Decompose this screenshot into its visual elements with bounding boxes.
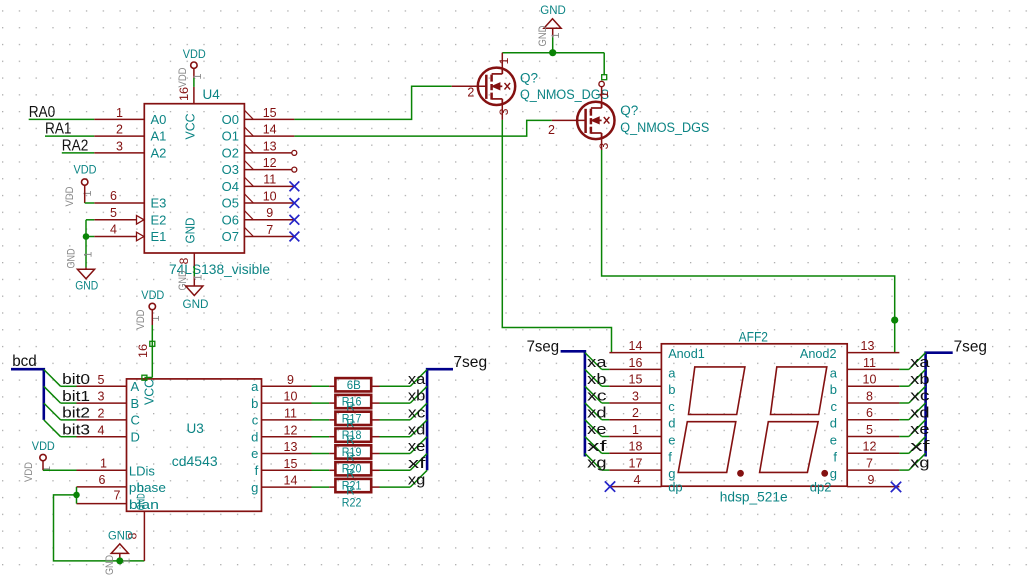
svg-text:e: e [251,446,258,461]
svg-text:5: 5 [98,373,105,387]
resistor R17 [312,395,411,425]
svg-text:Anod2: Anod2 [800,346,837,361]
svg-text:O7: O7 [222,229,239,244]
svg-text:1: 1 [100,457,107,471]
bus entry xe display-left [585,420,602,437]
U4 VCC pin 16 [193,87,195,104]
junction at E1 [83,233,90,240]
svg-text:Anod1: Anod1 [668,346,705,361]
svg-text:8: 8 [177,257,191,264]
svg-text:GND: GND [183,299,209,311]
svg-text:9: 9 [287,373,294,387]
wire bit0 [61,385,77,387]
svg-text:xf: xf [910,439,931,455]
svg-text:xc: xc [408,406,426,422]
svg-text:R22: R22 [342,495,362,509]
bus 7seg display left [561,351,585,456]
svg-text:c: c [252,413,259,428]
svg-text:VDD: VDD [177,67,189,87]
svg-text:GND: GND [108,531,133,543]
svg-text:e: e [830,433,837,448]
bus entry xf [410,454,427,471]
U4 74LS138 decoder [94,87,299,277]
svg-text:15: 15 [284,457,298,471]
svg-text:4: 4 [634,473,641,487]
svg-text:dp: dp [668,480,682,495]
svg-text:E3: E3 [151,196,167,211]
wire Q1 source to AFF2 pin 14 [502,120,611,353]
power symbol VDD at U4 E3 [82,179,88,185]
svg-text:xf: xf [587,439,608,455]
wire GND down to rail [552,37,554,53]
svg-text:e: e [668,433,675,448]
svg-text:d: d [830,416,837,431]
svg-text:6B: 6B [347,380,361,392]
wire stub xd display-right [899,419,909,421]
bus entry xf display-left [585,437,602,454]
svg-text:5: 5 [866,423,873,437]
wire VDD to U3 pin16 [151,325,153,378]
bus entry xg display-left [585,453,602,470]
svg-text:7: 7 [866,457,873,471]
resistor R22 [312,479,411,509]
transistor Q? Q_NMOS_DGS body [577,102,614,139]
svg-text:f: f [255,463,259,478]
transistor Q? Q_NMOS_DGS body [478,68,515,105]
wire VDD to LDis [43,469,77,471]
wire stub xd display-left [602,419,610,421]
svg-text:11: 11 [263,173,276,187]
svg-text:c: c [831,399,838,414]
svg-text:4: 4 [110,223,117,237]
svg-text:15: 15 [629,373,643,387]
svg-text:dp2: dp2 [810,480,832,495]
wire stub xf display-right [899,452,909,454]
svg-text:11: 11 [284,407,297,421]
svg-text:GND: GND [66,248,78,268]
wire VDD to E3 [84,185,86,203]
svg-text:B: B [131,396,140,411]
svg-text:O4: O4 [222,179,239,194]
svg-text:2: 2 [467,86,474,100]
svg-text:O6: O6 [222,212,239,227]
svg-text:a: a [251,379,259,394]
svg-text:13: 13 [861,339,875,353]
wire stub xb display-right [899,385,909,387]
transistor Q2 gate pin 2 [552,119,586,121]
bus entry xg display-right [909,453,926,470]
svg-text:10: 10 [863,373,877,387]
bus entry bit0 [44,370,61,387]
svg-text:xd: xd [408,422,426,438]
wire stub xc display-right [899,402,909,404]
svg-text:7: 7 [114,488,121,502]
svg-text:xa: xa [910,355,930,371]
U3 GND pin 8 [143,511,145,561]
svg-text:O1: O1 [222,129,239,144]
wire VDD to U4 pin16 [193,78,195,87]
svg-text:xf: xf [408,456,427,472]
digit 2 lower segment outline [760,422,819,473]
bus entry xc [410,403,427,420]
digit 2 upper segment outline [771,367,827,415]
svg-text:7: 7 [266,223,273,237]
svg-text:1: 1 [597,91,611,98]
svg-text:xc: xc [587,389,606,405]
bus entry xe display-right [909,420,926,437]
svg-text:O3: O3 [222,162,239,177]
U3 cd4543 BCD to 7-seg latch driver [77,373,312,512]
transistor Q1 drain pin 1 [501,53,503,74]
svg-text:6: 6 [110,189,117,203]
wire stub xg display-right [899,469,909,471]
bus entry xd display-left [585,403,602,420]
bus entry xb display-right [909,369,926,386]
digit 2 decimal point [821,470,828,477]
svg-text:7seg: 7seg [954,339,987,356]
svg-text:13: 13 [263,139,277,153]
bus entry bit1 [44,386,61,403]
svg-text:b: b [668,382,675,397]
wire stub xc display-left [602,402,610,404]
svg-text:1: 1 [83,251,95,257]
bus entry xa display-right [909,353,926,370]
no-connect X on AFF2 pin 4 [605,481,615,491]
svg-text:c: c [668,399,675,414]
svg-text:2: 2 [98,407,105,421]
svg-text:7seg: 7seg [527,339,560,356]
svg-text:A2: A2 [151,146,167,161]
bus entry xa [410,370,427,387]
svg-text:1: 1 [497,57,511,64]
wire GND rail horizontal [502,52,604,54]
svg-text:2: 2 [116,123,123,137]
svg-text:xe: xe [587,422,606,438]
wire bit1 [61,402,77,404]
ground symbol below U3 [111,544,128,554]
svg-text:12: 12 [263,156,277,170]
svg-text:Q?: Q? [620,103,638,118]
wire to bottom loop [54,495,145,561]
transistor Q1 source pin 3 [501,99,503,120]
svg-text:f: f [668,449,672,464]
svg-text:O0: O0 [222,112,239,127]
svg-text:4: 4 [98,423,105,437]
svg-text:14: 14 [263,123,277,137]
svg-text:VCC: VCC [183,114,198,140]
unconnected wire end squares at U3 VCC [150,341,155,346]
svg-text:3: 3 [98,390,105,404]
svg-text:8: 8 [866,389,873,403]
bus entry bit3 [44,420,61,437]
svg-text:phase: phase [129,480,166,495]
bus 7seg right of resistors [427,369,453,470]
svg-text:12: 12 [284,423,298,437]
svg-text:xg: xg [910,456,929,472]
svg-text:3: 3 [116,139,123,153]
svg-text:16: 16 [629,356,643,370]
ground symbol left of U4 [85,267,87,269]
svg-text:GND: GND [75,280,98,292]
wire bit3 [61,436,77,438]
display AFF2 hdsp_521e [609,330,899,505]
bus entry xc display-left [585,386,602,403]
svg-text:14: 14 [284,474,298,488]
bus entry xb display-left [585,369,602,386]
svg-text:A: A [131,379,140,394]
svg-text:18: 18 [629,440,643,454]
bus 7seg display right [926,353,953,457]
wire O0 to Q1 gate [294,86,451,119]
wire E2 E1 vertical [86,219,94,221]
svg-text:U4: U4 [203,87,221,102]
svg-text:b: b [137,480,144,495]
resistor R19 [312,429,411,459]
svg-text:15: 15 [263,106,277,120]
bus entry xd display-right [909,403,926,420]
no-connect X on AFF2 pin 9 [891,482,901,492]
wire stub xe display-right [899,436,909,438]
bus bcd [11,369,44,420]
wire U4 pin8 to GND [193,266,195,276]
svg-text:xe: xe [408,439,426,455]
bus entry xc display-right [909,386,926,403]
wire RA0 [29,118,95,120]
svg-text:1: 1 [116,106,123,120]
svg-text:cd4543: cd4543 [172,454,218,469]
resistor R20 [312,445,411,475]
svg-text:VDD: VDD [74,165,97,177]
junction GND rail [549,49,556,56]
resistor R18 [312,412,411,442]
svg-text:U3: U3 [187,421,204,436]
svg-text:14: 14 [629,339,643,353]
wire stub xa display-right [899,368,909,370]
svg-text:2: 2 [548,123,555,137]
svg-text:xd: xd [910,405,929,421]
svg-text:C: C [131,413,140,428]
wire ph-blan vertical with tap [76,487,78,504]
svg-text:GND: GND [537,25,549,46]
svg-text:xb: xb [910,372,929,388]
svg-text:xe: xe [910,422,929,438]
wire stub xb display-left [602,385,610,387]
svg-text:1: 1 [632,423,639,437]
wire RA2 [62,152,95,154]
svg-text:A1: A1 [151,129,167,144]
wire Q2 source to AFF2 pin 13 [602,150,895,353]
svg-text:1: 1 [192,73,204,79]
svg-text:GND: GND [540,5,566,17]
junction ph/blan [73,492,80,499]
power symbol VDD at U3 LDis [40,454,46,460]
svg-text:9: 9 [266,206,273,220]
resistor R16 [312,378,411,408]
svg-text:7seg: 7seg [453,354,487,371]
svg-text:O2: O2 [222,145,239,160]
bus entry xa display-left [585,353,602,370]
svg-text:xa: xa [587,355,607,371]
svg-text:6: 6 [99,473,106,487]
svg-text:6: 6 [866,406,873,420]
svg-text:2: 2 [632,406,639,420]
wire rail down to Q2 drain [603,53,605,75]
svg-text:12: 12 [863,440,877,454]
bus entry xg [410,470,427,487]
ground symbol below U4 [186,286,203,296]
junction at GND bottom [116,557,123,564]
wire stub xf display-left [602,452,610,454]
svg-text:10: 10 [263,189,277,203]
svg-text:VDD: VDD [23,462,35,482]
svg-text:b: b [251,396,258,411]
svg-text:hdsp_521e: hdsp_521e [720,489,788,504]
power symbol VDD top of U4 [191,62,197,68]
svg-text:1: 1 [192,274,204,280]
svg-text:RA0: RA0 [29,104,56,121]
wire stub xg display-left [602,469,610,471]
bus entry bit2 [44,403,61,420]
unconnected wire end square [602,75,607,80]
svg-text:RA2: RA2 [62,137,89,154]
svg-text:AFF2: AFF2 [739,330,768,345]
svg-text:3: 3 [632,389,639,403]
svg-text:Q?: Q? [520,70,538,85]
bus entry xd [410,420,427,437]
svg-text:d: d [668,416,675,431]
junction on wire to pin 13 [891,317,898,324]
svg-text:xc: xc [910,389,929,405]
svg-text:3: 3 [597,142,611,149]
transistor Q2 drain pin 1 with unconnected circle [599,81,604,86]
svg-text:Q_NMOS_DGS: Q_NMOS_DGS [620,120,709,135]
svg-text:13: 13 [284,440,298,454]
svg-text:1: 1 [82,190,94,196]
svg-text:xa: xa [408,372,427,388]
svg-text:a: a [668,365,676,380]
digit 1 upper segment outline [689,367,745,415]
svg-text:5: 5 [110,206,117,220]
svg-text:E1: E1 [151,229,167,244]
svg-text:g: g [251,480,258,495]
U4 GND pin 8 [193,253,195,266]
svg-text:VDD: VDD [183,49,206,61]
svg-text:f: f [833,449,837,464]
wire RA1 [45,135,94,137]
svg-text:17: 17 [629,457,643,471]
wire stub xa display-left [602,368,610,370]
svg-text:xg: xg [587,456,606,472]
bus entry xe [410,437,427,454]
svg-text:VDD: VDD [135,309,147,329]
svg-text:xg: xg [408,473,426,489]
transistor Q1 gate pin 2 [452,85,487,87]
svg-text:A0: A0 [151,112,167,127]
svg-text:1: 1 [550,32,562,38]
bus entry xb [410,386,427,403]
svg-text:VDD: VDD [141,290,164,302]
svg-text:10: 10 [284,390,298,404]
power symbol GND top [544,19,561,29]
svg-text:VDD: VDD [64,186,76,206]
transistor Q2 source pin 3 [601,133,603,150]
svg-text:VDD: VDD [32,441,55,453]
bus entry xf display-right [909,437,926,454]
wire bit2 [61,419,77,421]
svg-text:b: b [830,382,837,397]
svg-text:RA1: RA1 [45,121,72,138]
svg-text:xb: xb [408,389,426,405]
svg-text:GND: GND [136,493,148,510]
svg-text:GND: GND [104,555,116,575]
svg-text:d: d [251,429,258,444]
svg-text:16: 16 [177,87,191,101]
svg-text:GND: GND [183,218,198,244]
svg-text:a: a [830,365,838,380]
svg-text:E2: E2 [151,212,167,227]
digit 1 decimal point [737,470,744,477]
svg-text:xb: xb [587,372,606,388]
svg-text:O5: O5 [222,196,239,211]
svg-text:3: 3 [497,108,511,115]
svg-text:9: 9 [868,473,875,487]
svg-text:11: 11 [863,356,876,370]
svg-text:xd: xd [587,405,606,421]
svg-text:D: D [131,430,140,445]
svg-text:16: 16 [136,344,150,358]
svg-text:Q_NMOS_DGS: Q_NMOS_DGS [520,87,609,102]
svg-text:LDis: LDis [129,463,156,478]
svg-text:VCC: VCC [141,379,156,405]
wire stub xe display-left [602,436,610,438]
wire O1 to Q2 gate [294,120,551,136]
svg-text:bcd: bcd [12,353,37,370]
power symbol VDD above U3 [149,303,155,309]
digit 1 lower segment outline [678,422,736,473]
resistor R21 [312,462,411,492]
